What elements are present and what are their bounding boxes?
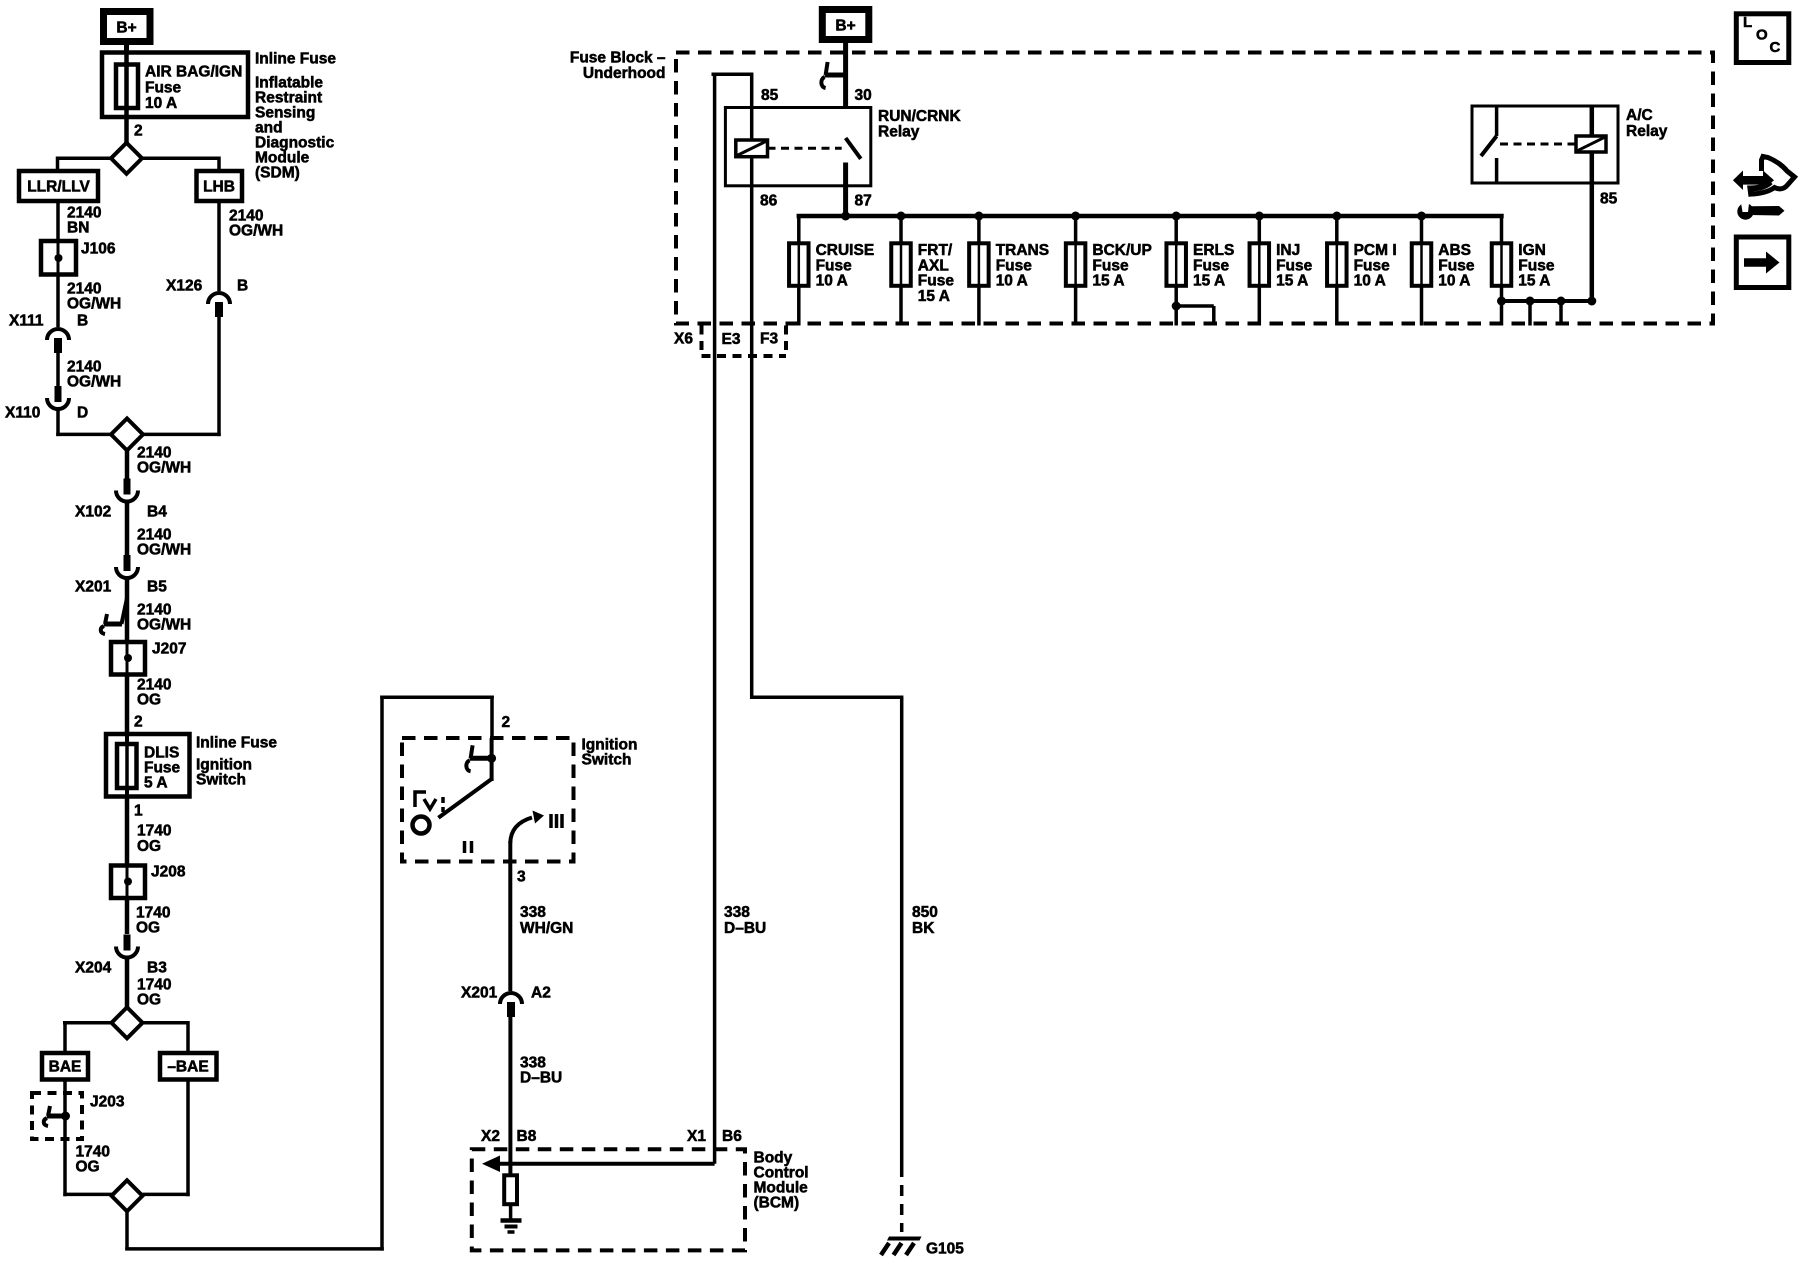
svg-text:Fuse Block –: Fuse Block – xyxy=(570,50,666,67)
connector X110 pin D xyxy=(55,386,62,402)
wire through fuse xyxy=(124,53,129,143)
svg-text:B: B xyxy=(237,278,248,295)
svg-text:G105: G105 xyxy=(926,1241,964,1258)
splice J208 xyxy=(111,866,145,899)
svg-text:OG: OG xyxy=(137,992,161,1009)
wire 2140 OG/WH xyxy=(56,275,60,328)
svg-text:B3: B3 xyxy=(147,960,167,977)
connector X6 E3 F3 sub-box xyxy=(700,326,704,357)
battery feed B+ (left) xyxy=(104,12,151,42)
svg-text:J203: J203 xyxy=(90,1094,125,1111)
inline fuse AIR BAG/IGN box xyxy=(102,53,248,118)
svg-text:OG/WH: OG/WH xyxy=(67,374,121,391)
wire to -BAE xyxy=(142,1021,189,1025)
svg-text:OG: OG xyxy=(137,692,161,709)
svg-text:X126: X126 xyxy=(166,278,203,295)
navigation icon: double arrow xyxy=(1733,171,1774,191)
wire 1740 OG xyxy=(125,898,130,934)
svg-text:B4: B4 xyxy=(147,504,167,521)
wire B+ to relay 30 with takeout hook xyxy=(843,43,848,138)
svg-text:5 A: 5 A xyxy=(144,775,168,792)
svg-text:Switch: Switch xyxy=(196,772,246,789)
A/C relay box xyxy=(1472,106,1618,183)
BCM internal ground xyxy=(501,1218,522,1223)
svg-text:87: 87 xyxy=(855,193,872,210)
wire to splice diamond S2 xyxy=(56,408,60,436)
svg-text:X204: X204 xyxy=(75,960,112,977)
fuse PCM I 10A xyxy=(1332,212,1341,221)
svg-text:Inline Fuse: Inline Fuse xyxy=(196,735,277,752)
relay pin 87 wire to bus xyxy=(843,163,848,217)
dashed wire tail at G105 xyxy=(900,1185,904,1232)
inline fuse DLIS box xyxy=(106,734,190,797)
connector box BAE xyxy=(42,1053,88,1080)
battery feed B+ (middle) xyxy=(822,10,869,40)
svg-text:X201: X201 xyxy=(75,579,112,596)
terminal 3 wire xyxy=(508,841,512,991)
wire 338 D-BU xyxy=(508,1017,512,1176)
svg-text:15 A: 15 A xyxy=(1276,273,1308,290)
svg-text:15 A: 15 A xyxy=(1092,273,1124,290)
wire below -BAE xyxy=(186,1080,190,1197)
fuse IGN 15A xyxy=(1500,216,1504,243)
svg-text:F3: F3 xyxy=(760,331,778,348)
svg-text:86: 86 xyxy=(760,193,778,210)
svg-text:OG: OG xyxy=(76,1159,100,1176)
forward arrow box icon xyxy=(1736,237,1789,288)
svg-text:3: 3 xyxy=(517,869,526,886)
svg-text:OG: OG xyxy=(137,838,161,855)
relay coil xyxy=(736,140,768,157)
splice J207 xyxy=(111,642,145,675)
svg-text:C: C xyxy=(1770,39,1781,56)
svg-text:LHB: LHB xyxy=(203,179,235,196)
svg-text:J106: J106 xyxy=(81,241,116,258)
rotor circle xyxy=(413,817,430,834)
svg-text:10 A: 10 A xyxy=(996,273,1028,290)
svg-text:338: 338 xyxy=(724,904,750,921)
svg-text:Underhood: Underhood xyxy=(583,65,666,82)
connector box -BAE xyxy=(160,1053,217,1080)
svg-text:J207: J207 xyxy=(152,641,186,658)
terminal 2 wire and junction xyxy=(490,738,494,781)
svg-text:D–BU: D–BU xyxy=(520,1070,562,1087)
svg-text:850: 850 xyxy=(912,904,938,921)
svg-text:X6: X6 xyxy=(674,331,693,348)
wire with takeout hook at X201 xyxy=(125,577,130,642)
wire E3 338 D-BU down to BCM X1 xyxy=(713,74,717,1164)
connector X204 pin B3 xyxy=(124,935,131,951)
svg-text:OG: OG xyxy=(136,920,160,937)
A/C relay switch xyxy=(1495,106,1499,136)
wire 2140 OG/WH xyxy=(56,353,60,386)
LOC box icon xyxy=(1736,14,1789,63)
fuse element AIR BAG/IGN 10A xyxy=(116,65,138,109)
connector box LHB xyxy=(197,171,243,201)
wire 2140 OG/WH below S2 xyxy=(125,450,130,479)
switch blade xyxy=(438,779,491,818)
svg-text:D: D xyxy=(77,405,88,422)
coil to 86 wire xyxy=(750,157,754,186)
svg-text:10 A: 10 A xyxy=(816,273,848,290)
svg-text:LLR/LLV: LLR/LLV xyxy=(27,179,90,196)
A/C relay coil xyxy=(1590,107,1595,301)
navigation icon: curved arrow xyxy=(1751,157,1795,195)
BCM internal resistor xyxy=(504,1175,517,1204)
Body Control Module dashed box xyxy=(472,1149,745,1250)
position III marks xyxy=(549,814,553,828)
svg-text:X102: X102 xyxy=(75,504,111,521)
ERLS lower jog xyxy=(1172,302,1181,311)
svg-text:B: B xyxy=(77,313,88,330)
bottom loop wire to ignition switch xyxy=(125,1212,129,1250)
connector X102 pin B4 xyxy=(124,479,131,495)
svg-text:X1: X1 xyxy=(687,1128,706,1145)
svg-text:15 A: 15 A xyxy=(918,288,950,305)
svg-text:X111: X111 xyxy=(9,313,44,330)
svg-text:Fuse: Fuse xyxy=(145,80,182,97)
navigation icon: wrench xyxy=(1750,206,1785,216)
svg-text:RUN/CRNK: RUN/CRNK xyxy=(878,108,961,125)
svg-text:2: 2 xyxy=(502,714,511,731)
svg-text:BAE: BAE xyxy=(49,1059,82,1076)
fuse BCK/UP 15A xyxy=(1071,212,1080,221)
svg-text:15 A: 15 A xyxy=(1193,273,1225,290)
svg-text:J208: J208 xyxy=(151,864,186,881)
svg-text:E3: E3 xyxy=(722,331,741,348)
svg-text:OG/WH: OG/WH xyxy=(137,542,191,559)
svg-text:2: 2 xyxy=(134,123,143,140)
fuse TRANS 10A xyxy=(974,212,983,221)
fuse bus xyxy=(797,214,1504,219)
svg-text:1: 1 xyxy=(134,803,143,820)
svg-text:Relay: Relay xyxy=(1626,123,1668,140)
wiper arm with arrow to III xyxy=(510,818,532,844)
fuse CRUISE 10A xyxy=(797,216,801,243)
wire to LHB xyxy=(142,157,219,161)
svg-text:85: 85 xyxy=(761,87,779,104)
svg-text:(SDM): (SDM) xyxy=(255,165,300,182)
svg-text:X2: X2 xyxy=(481,1128,500,1145)
wire 1740 OG xyxy=(125,797,130,866)
relay link dashed xyxy=(768,147,842,150)
svg-text:10 A: 10 A xyxy=(1438,273,1470,290)
svg-text:10 A: 10 A xyxy=(1354,273,1386,290)
connector box LLR/LLV xyxy=(19,171,98,201)
svg-text:10 A: 10 A xyxy=(145,95,177,112)
splice J106 xyxy=(41,241,76,275)
svg-text:B8: B8 xyxy=(517,1128,537,1145)
svg-text:D–BU: D–BU xyxy=(724,920,766,937)
svg-text:30: 30 xyxy=(855,87,872,104)
svg-text:OG/WH: OG/WH xyxy=(67,296,121,313)
IGN lower bus comb xyxy=(1502,299,1592,303)
svg-text:B+: B+ xyxy=(116,20,136,37)
splice J203 (dashed) with takeout hook xyxy=(32,1093,82,1139)
fuse ABS 10A xyxy=(1417,212,1426,221)
svg-text:AIR BAG/IGN: AIR BAG/IGN xyxy=(145,64,242,81)
svg-text:BN: BN xyxy=(67,220,89,237)
ground G105 xyxy=(887,1237,922,1241)
wire B+ to inline fuse box xyxy=(124,45,129,54)
fuse INJ 15A xyxy=(1255,212,1264,221)
svg-text:15 A: 15 A xyxy=(1518,273,1550,290)
svg-text:–BAE: –BAE xyxy=(167,1059,208,1076)
svg-text:1740: 1740 xyxy=(137,823,171,840)
connector X201 pin B5 xyxy=(124,555,131,571)
wire 1740 OG xyxy=(125,956,130,1008)
svg-text:X201: X201 xyxy=(461,985,498,1002)
RUN/CRNK relay box xyxy=(725,108,870,186)
wire below BAE xyxy=(63,1080,67,1197)
svg-text:338: 338 xyxy=(520,904,546,921)
svg-text:2: 2 xyxy=(134,714,143,731)
splice diamond S4 xyxy=(63,1193,112,1197)
svg-text:L: L xyxy=(1743,14,1752,31)
fuse element DLIS 5A xyxy=(117,744,137,788)
svg-text:OG/WH: OG/WH xyxy=(137,617,191,634)
ignition switch dashed box xyxy=(402,738,574,862)
svg-text:A/C: A/C xyxy=(1626,107,1653,124)
splice diamond S2 xyxy=(111,418,143,450)
svg-text:Switch: Switch xyxy=(582,752,632,769)
wire to BAE xyxy=(63,1021,113,1025)
svg-text:Inline Fuse: Inline Fuse xyxy=(255,51,336,68)
fuse ERLS 15A xyxy=(1172,212,1181,221)
svg-text:X110: X110 xyxy=(5,405,40,422)
wire 2140 BN xyxy=(56,201,60,241)
wire LHB branch down xyxy=(217,201,221,291)
svg-text:OG/WH: OG/WH xyxy=(229,223,283,240)
position II marks xyxy=(463,841,467,853)
svg-text:(BCM): (BCM) xyxy=(754,1195,800,1212)
Fuse Block - Underhood dashed box xyxy=(676,53,1713,324)
svg-text:OG/WH: OG/WH xyxy=(137,460,191,477)
fuse FRT/AXL 15A xyxy=(897,212,906,221)
svg-text:BK: BK xyxy=(912,920,935,937)
svg-text:B+: B+ xyxy=(835,18,855,35)
splice diamond S1 xyxy=(111,143,142,174)
svg-text:85: 85 xyxy=(1600,191,1618,208)
key bracket mark xyxy=(415,792,426,807)
wire F3 850 BK to G105 xyxy=(750,186,754,699)
wire to LLR/LLV xyxy=(58,157,112,161)
wire 2140 OG xyxy=(125,675,130,735)
BCM internal arrow line xyxy=(497,1162,715,1166)
relay coil circuit: 85 up and over to E3 drop xyxy=(750,74,754,140)
svg-text:A2: A2 xyxy=(531,985,551,1002)
svg-text:Relay: Relay xyxy=(878,124,920,141)
svg-text:O: O xyxy=(1756,26,1768,43)
relay switch blade xyxy=(846,138,861,159)
splice diamond S3 xyxy=(112,1007,143,1038)
svg-text:B5: B5 xyxy=(147,579,167,596)
wire 2140 OG/WH xyxy=(125,500,130,555)
svg-text:B6: B6 xyxy=(722,1128,742,1145)
A/C relay link dashed xyxy=(1500,143,1576,146)
svg-text:WH/GN: WH/GN xyxy=(520,920,573,937)
